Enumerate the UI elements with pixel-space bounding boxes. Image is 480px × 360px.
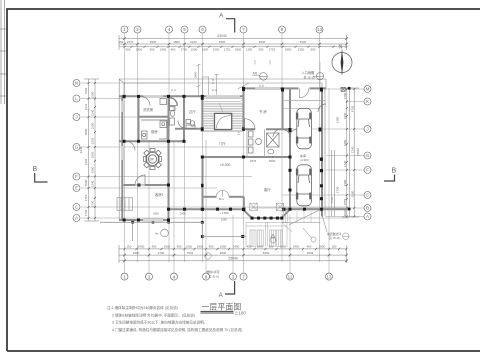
svg-text:150: 150	[332, 244, 337, 248]
svg-text:7: 7	[242, 274, 245, 279]
svg-text:C-9: C-9	[259, 84, 264, 88]
svg-text:B: B	[392, 168, 397, 175]
svg-text:F: F	[366, 168, 369, 173]
svg-text:900: 900	[177, 244, 182, 248]
svg-text:1730: 1730	[91, 200, 95, 207]
svg-text:6: 6	[201, 27, 204, 32]
svg-text:厨房: 厨房	[151, 129, 158, 134]
svg-text:2400: 2400	[233, 244, 240, 248]
svg-text:4: 4	[173, 274, 176, 279]
svg-text:9440: 9440	[79, 146, 83, 153]
svg-text:C: C	[366, 193, 370, 198]
svg-text:F: F	[75, 174, 78, 179]
svg-text:见 J5-16: 见 J5-16	[209, 275, 220, 279]
svg-text:4 门窗过梁铺设, 构造柱与圈梁连接详见总说明, 结构施工图: 4 门窗过梁铺设, 构造柱与圈梁连接详见总说明, 结构施工图纸见总说明 70 (…	[112, 327, 242, 332]
svg-text:2 墙体&柱轴线除注明"外均居中, 平面图示。(见总说): 2 墙体&柱轴线除注明"外均居中, 平面图示。(见总说)	[112, 312, 195, 317]
svg-text:150: 150	[119, 40, 124, 44]
svg-text:500: 500	[259, 48, 264, 52]
svg-text:1340: 1340	[91, 180, 95, 187]
svg-text:入口雨棚: 入口雨棚	[302, 70, 315, 75]
svg-text:150: 150	[127, 244, 132, 248]
svg-text:1:100: 1:100	[235, 311, 247, 316]
svg-text:±0.000: ±0.000	[220, 163, 230, 167]
svg-text:1860: 1860	[91, 151, 95, 158]
svg-text:1503: 1503	[91, 137, 95, 144]
svg-text:注:1 墙体除注明外均为240厚页岩砖 (见总说): 注:1 墙体除注明外均为240厚页岩砖 (见总说)	[107, 305, 178, 310]
svg-text:过厅: 过厅	[189, 109, 196, 114]
svg-text:1570: 1570	[127, 40, 134, 44]
svg-text:N: N	[75, 81, 78, 86]
svg-text:客房1: 客房1	[155, 192, 164, 197]
svg-text:6: 6	[205, 274, 208, 279]
svg-text:1500: 1500	[213, 48, 220, 52]
svg-text:3683: 3683	[84, 87, 88, 94]
svg-text:3100: 3100	[350, 190, 354, 197]
svg-text:4800: 4800	[219, 40, 226, 44]
svg-text:1020: 1020	[343, 209, 347, 216]
svg-text:7: 7	[242, 27, 245, 32]
svg-text:+1.650: +1.650	[220, 211, 229, 215]
svg-text:1720: 1720	[336, 186, 340, 193]
svg-text:3360: 3360	[343, 112, 347, 119]
svg-text:1500: 1500	[91, 122, 95, 129]
svg-text:1752: 1752	[224, 48, 231, 52]
svg-text:A: A	[75, 216, 79, 221]
svg-text:1752: 1752	[269, 48, 276, 52]
svg-text:G: G	[366, 153, 370, 158]
svg-text:3000: 3000	[84, 128, 88, 135]
svg-text:1350: 1350	[298, 48, 305, 52]
svg-text:1800: 1800	[153, 212, 159, 216]
svg-text:5900: 5900	[84, 179, 88, 186]
svg-text:2473: 2473	[250, 159, 257, 163]
svg-text:1700: 1700	[343, 92, 347, 99]
svg-text:C-4: C-4	[212, 88, 217, 92]
svg-text:4: 4	[168, 27, 171, 32]
svg-text:1800: 1800	[202, 48, 209, 52]
svg-text:2380: 2380	[343, 179, 347, 186]
svg-text:1730: 1730	[84, 209, 88, 216]
svg-text:卫: 卫	[172, 107, 175, 111]
svg-text:1555: 1555	[343, 198, 347, 205]
svg-text:A: A	[219, 13, 224, 20]
svg-text:1800: 1800	[285, 48, 292, 52]
svg-text:7503: 7503	[187, 251, 194, 255]
svg-text:4800: 4800	[220, 251, 227, 255]
svg-text:1: 1	[123, 27, 126, 32]
svg-text:L: L	[75, 96, 78, 101]
svg-text:1720: 1720	[343, 160, 347, 167]
svg-text:1800: 1800	[164, 244, 171, 248]
svg-text:3360: 3360	[84, 158, 88, 165]
svg-text:1: 1	[123, 274, 126, 279]
svg-text:B: B	[33, 166, 38, 173]
svg-text:7140: 7140	[350, 146, 354, 153]
svg-text:1050: 1050	[186, 244, 193, 248]
svg-text:客厅: 客厅	[264, 187, 271, 192]
svg-text:洗衣房: 洗衣房	[143, 107, 154, 112]
svg-text:1800: 1800	[235, 48, 242, 52]
svg-text:A: A	[219, 293, 223, 299]
svg-text:1753: 1753	[84, 194, 88, 201]
svg-text:2400: 2400	[133, 251, 140, 255]
svg-text:5: 5	[183, 27, 186, 32]
svg-text:4720: 4720	[350, 105, 354, 112]
svg-text:23040: 23040	[228, 257, 238, 261]
svg-text:450: 450	[171, 48, 176, 52]
svg-text:4s: 4s	[155, 232, 159, 236]
svg-text:4500: 4500	[259, 40, 266, 44]
svg-text:1500: 1500	[91, 166, 95, 173]
svg-text:3503: 3503	[307, 251, 314, 255]
svg-text:B: B	[366, 206, 369, 211]
svg-text:M: M	[366, 87, 370, 92]
svg-text:900: 900	[150, 48, 155, 52]
svg-text:3500: 3500	[150, 40, 157, 44]
svg-text:900: 900	[311, 48, 316, 52]
svg-text:3 卫生间楼地面均低于30以下, 坡向地漏方向找坡见总说明。: 3 卫生间楼地面均低于30以下, 坡向地漏方向找坡见总说明。	[112, 320, 207, 325]
svg-text:E: E	[75, 186, 78, 191]
svg-text:A: A	[366, 214, 370, 219]
svg-text:2400: 2400	[194, 71, 198, 78]
svg-text:2: 2	[136, 27, 139, 32]
svg-text:1800: 1800	[197, 244, 204, 248]
svg-text:见 J5-15: 见 J5-15	[329, 236, 340, 240]
svg-text:2790: 2790	[158, 251, 165, 255]
svg-text:2400: 2400	[293, 244, 300, 248]
svg-text:1500: 1500	[91, 91, 95, 98]
svg-text:M-1: M-1	[219, 197, 224, 201]
svg-text:5400: 5400	[263, 251, 270, 255]
svg-text:1240: 1240	[91, 109, 95, 116]
svg-text:900: 900	[209, 244, 214, 248]
svg-text:书 房: 书 房	[259, 109, 267, 114]
svg-text:13: 13	[317, 27, 323, 32]
svg-text:门厅: 门厅	[219, 141, 226, 146]
svg-text:450: 450	[152, 244, 157, 248]
svg-text:AN: AN	[253, 72, 258, 76]
svg-text:2400: 2400	[180, 212, 186, 216]
svg-text:楼梯A详见: 楼梯A详见	[207, 270, 220, 274]
svg-text:1650: 1650	[221, 218, 227, 222]
svg-text:见 J5-15: 见 J5-15	[304, 75, 316, 79]
svg-text:3: 3	[148, 274, 151, 279]
svg-text:3380: 3380	[343, 139, 347, 146]
svg-text:1050: 1050	[220, 244, 227, 248]
svg-text:450: 450	[307, 244, 312, 248]
svg-text:8P: 8P	[150, 157, 154, 161]
svg-text:2380: 2380	[336, 116, 340, 123]
svg-text:11: 11	[288, 274, 293, 279]
svg-text:J: J	[75, 115, 77, 120]
svg-text:1700: 1700	[181, 48, 188, 52]
svg-text:2400: 2400	[138, 244, 145, 248]
svg-text:3: 3	[232, 274, 235, 279]
svg-text:900: 900	[126, 48, 131, 52]
svg-text:1800: 1800	[319, 244, 326, 248]
svg-text:2433: 2433	[84, 103, 88, 110]
svg-text:13: 13	[326, 274, 332, 279]
svg-text:4500: 4500	[300, 40, 307, 44]
svg-text:J: J	[366, 127, 368, 132]
svg-text:15040: 15040	[356, 148, 360, 156]
svg-text:K: K	[366, 99, 370, 104]
svg-text:5000: 5000	[269, 159, 276, 163]
svg-text:2100: 2100	[190, 40, 197, 44]
svg-text:-0.300: -0.300	[300, 158, 309, 162]
svg-text:C: C	[75, 205, 79, 210]
svg-text:23040: 23040	[217, 34, 227, 38]
svg-text:2400: 2400	[160, 48, 167, 52]
svg-text:1500: 1500	[191, 48, 198, 52]
svg-text:1800: 1800	[173, 40, 180, 44]
svg-text:1350: 1350	[246, 48, 253, 52]
svg-text:8: 8	[281, 27, 284, 32]
svg-text:1800: 1800	[136, 48, 143, 52]
svg-text:车库: 车库	[300, 153, 306, 158]
svg-text:C-4: C-4	[171, 88, 176, 92]
